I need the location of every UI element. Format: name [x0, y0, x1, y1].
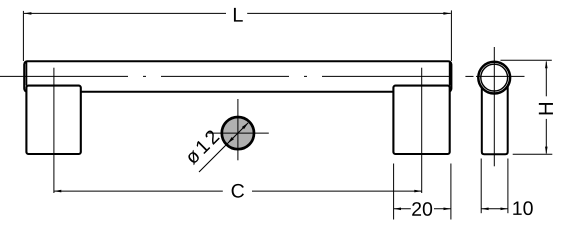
- diameter arrow lower-left: [227, 137, 233, 143]
- side view post: [482, 87, 508, 155]
- bar horizontal centerline: [0, 75, 450, 77]
- diameter arrow upper-right: [242, 123, 248, 129]
- handle bar (front view): [24, 61, 451, 92]
- left post P1: [26, 86, 80, 154]
- diameter leader line: [199, 123, 248, 172]
- dimension C label: [232, 184, 244, 198]
- dimension L line: [24, 12, 226, 14]
- side view horizontal centerline: [465, 75, 473, 77]
- dimension 10 arrow left: [481, 208, 488, 211]
- right post centerline: [421, 68, 423, 193]
- dimension L extension line right: [450, 10, 452, 61]
- dimension 20 arrow left: [394, 208, 401, 211]
- dimension C arrow left: [54, 190, 61, 193]
- dimension L extension line left: [22, 11, 24, 61]
- dimension H arrow top: [545, 61, 548, 68]
- diameter label o12: [184, 129, 220, 165]
- side view vertical centerline: [493, 47, 495, 166]
- dimension H arrow bottom: [545, 147, 548, 154]
- dimension 10 extension line right: [507, 159, 509, 214]
- dimension 10 extension line left: [480, 159, 482, 214]
- left post centerline: [53, 68, 55, 193]
- dimension L label: [234, 8, 243, 22]
- dimension C line: [54, 190, 223, 192]
- dimension 20 arrow right: [444, 208, 451, 211]
- dimension H line: [545, 62, 547, 97]
- dimension 20 label: [412, 202, 432, 216]
- dimension 20 extension line left: [393, 164, 395, 220]
- dimension 20 line: [394, 208, 411, 210]
- side view bar outer circle: [478, 62, 510, 94]
- dimension H label: [539, 103, 553, 114]
- dimension L arrow right: [443, 12, 450, 15]
- right cap junction line: [449, 62, 451, 86]
- dimension L arrow left: [24, 12, 31, 15]
- dimension H extension line bottom: [513, 153, 553, 155]
- dimension 10 arrow right: [501, 208, 508, 211]
- dimension 10 line: [481, 208, 508, 210]
- dimension C arrow right: [414, 190, 421, 193]
- dimension H extension line top: [501, 59, 552, 61]
- dimension 10 label: [513, 201, 532, 215]
- hole circle horizontal centerline: [208, 132, 268, 134]
- hole circle vertical centerline: [237, 99, 239, 160]
- side view bar inner circle: [481, 64, 508, 91]
- hole circle o12 (gray): [222, 117, 254, 149]
- left cap junction line: [25, 62, 27, 86]
- right post P2: [393, 86, 449, 154]
- dimension 20 extension line right: [450, 164, 452, 220]
